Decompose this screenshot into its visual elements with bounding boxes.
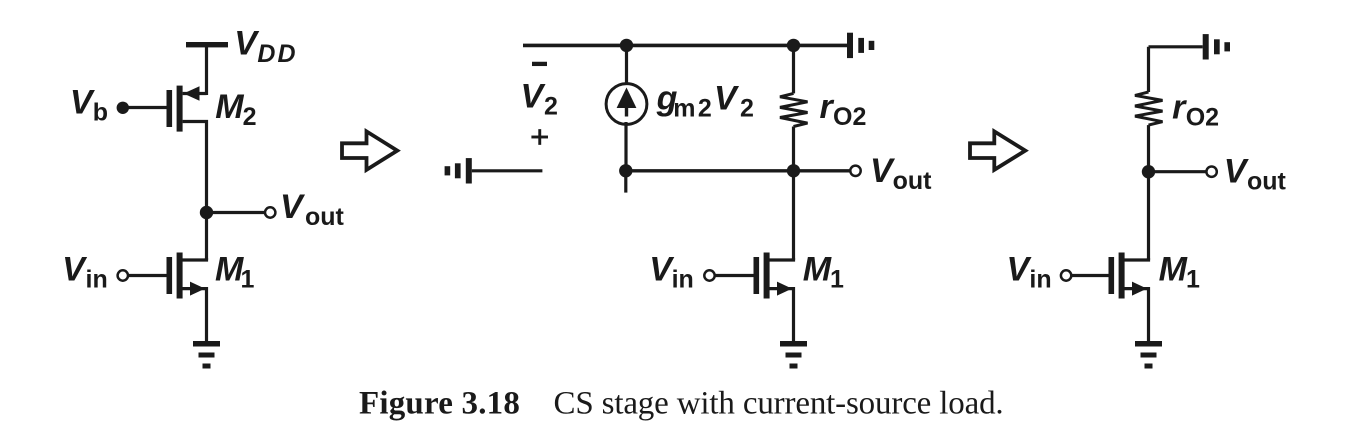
node Vout (a) junction dot: [200, 206, 213, 219]
resistor rO2 (c) zigzag: [1135, 92, 1163, 125]
label Vin (a): [62, 250, 108, 293]
wire Vin to M1 gate (b): [715, 274, 754, 277]
wire bottom rail to M1 drain (b): [792, 171, 795, 260]
svg-text:2: 2: [544, 93, 558, 121]
label M1 (a): [215, 250, 255, 293]
svg-text:V: V: [234, 25, 260, 63]
wire rO2 to node (c): [1147, 125, 1150, 172]
svg-text:M: M: [803, 250, 832, 288]
svg-text:1: 1: [830, 265, 844, 293]
transistor M1 (c): [1109, 253, 1149, 342]
minus polarity sign of V2: [532, 62, 547, 66]
wire node to Vout terminal (c): [1149, 170, 1207, 173]
node top rail / rO2 junction dot: [787, 39, 800, 52]
svg-text:out: out: [1247, 168, 1287, 196]
svg-text:in: in: [672, 265, 694, 293]
terminal Vout (b) open circle: [850, 166, 860, 176]
wire node to Vout terminal (a): [207, 211, 266, 214]
svg-text:out: out: [305, 203, 345, 231]
ground (c) below M1: [1135, 341, 1162, 369]
svg-text:V: V: [62, 250, 88, 288]
wire bottom rail (b): [626, 169, 851, 172]
ground (b) top-right sideways: [847, 33, 874, 58]
wire top to rO2 (c): [1147, 47, 1150, 92]
ground (b) mid-left sideways: [445, 158, 472, 183]
terminal Vout (c) open circle: [1206, 167, 1216, 177]
terminal Vin (a) open circle: [118, 270, 128, 280]
wire top rail to rO2 (b): [792, 45, 795, 93]
svg-text:DD: DD: [257, 40, 297, 68]
svg-text:M: M: [1159, 251, 1188, 289]
caption Figure 3.18: [359, 386, 1004, 422]
label gm2V2: [656, 79, 754, 122]
ground (c) top-right sideways: [1203, 34, 1230, 59]
terminal Vout (a) open circle: [265, 207, 275, 217]
label Vout (b): [870, 152, 932, 195]
svg-text:1: 1: [241, 265, 255, 293]
label Vin (b): [649, 250, 694, 293]
svg-text:2: 2: [243, 103, 257, 131]
terminal Vin (c) open circle: [1061, 270, 1071, 280]
node Vb dot: [117, 102, 129, 114]
wire Vin to M1 gate (a): [128, 274, 167, 277]
svg-text:CS stage with current-source l: CS stage with current-source load.: [554, 386, 1004, 422]
wire top rail (b): [523, 44, 847, 48]
plus polarity sign of V2: [531, 129, 548, 145]
svg-text:in: in: [1029, 266, 1051, 294]
wire rO2 to bottom rail (b): [792, 127, 795, 171]
wire Vin to M1 gate (c): [1071, 274, 1108, 277]
wire top (c) to sideways ground: [1149, 45, 1203, 48]
svg-text:O2: O2: [1186, 103, 1219, 131]
svg-text:V: V: [1224, 153, 1250, 191]
node bottom rail / rO2 junction dot: [787, 164, 800, 177]
label Vin (c): [1007, 251, 1052, 294]
svg-text:O2: O2: [833, 103, 866, 131]
wire VDD to M2 source: [205, 47, 208, 95]
transistor M1 (b): [754, 253, 794, 342]
label Vout (c): [1224, 153, 1287, 196]
power rail VDD bar: [186, 42, 228, 47]
label M2: [215, 88, 256, 131]
current source gm2V2 circle: [606, 84, 647, 125]
wire node to M1 drain (c): [1147, 172, 1150, 260]
svg-text:M: M: [215, 88, 244, 126]
label rO2 (c): [1172, 88, 1219, 131]
svg-text:m2: m2: [673, 95, 714, 123]
ground (a) below M1: [193, 341, 220, 369]
transistor M1 (a): [167, 253, 207, 342]
label V2: [521, 78, 558, 121]
node Vout (c) junction dot: [1142, 165, 1155, 178]
label M1 (c): [1159, 251, 1200, 294]
wire node to M1 drain (a): [205, 213, 208, 261]
label rO2 (b): [820, 88, 867, 131]
wire Vb to M2 gate: [123, 106, 167, 109]
wire stub below left junction: [624, 171, 627, 193]
svg-text:2: 2: [740, 95, 754, 123]
svg-text:V: V: [521, 78, 547, 116]
svg-text:in: in: [86, 265, 108, 293]
svg-text:V: V: [280, 188, 306, 226]
block arrow 1: [342, 131, 397, 169]
wire mid-left ground stub: [472, 169, 543, 172]
label Vout (a): [280, 188, 345, 231]
block arrow 2: [970, 131, 1025, 169]
terminal Vin (b) open circle: [704, 270, 714, 280]
label VDD: [234, 25, 297, 68]
node bottom rail / current source junction dot: [619, 164, 632, 177]
transistor M2 (PMOS current source): [167, 86, 207, 213]
wire top rail to current source: [625, 45, 628, 85]
label Vb: [70, 84, 108, 127]
resistor rO2 (b) zigzag: [780, 93, 808, 126]
node top rail / current source junction dot: [620, 39, 633, 52]
wire current source to bottom rail: [624, 122, 627, 171]
label M1 (b): [803, 250, 844, 293]
svg-text:V: V: [714, 79, 740, 117]
svg-text:out: out: [893, 167, 933, 195]
svg-text:1: 1: [1186, 266, 1200, 294]
svg-text:b: b: [93, 99, 108, 127]
svg-text:Figure 3.18: Figure 3.18: [359, 386, 520, 422]
ground (b) below M1: [780, 341, 807, 369]
